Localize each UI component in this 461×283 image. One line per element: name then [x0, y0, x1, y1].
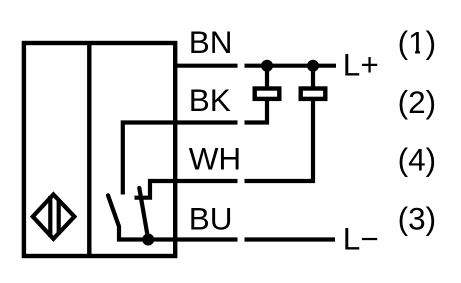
svg-text:(2): (2) — [398, 84, 437, 120]
load resistor RL2 — [301, 89, 326, 99]
svg-text:L−: L− — [343, 220, 379, 256]
svg-text:(4): (4) — [398, 141, 437, 177]
NC contact lever (closed through stop bar, WH output) — [139, 188, 148, 240]
svg-text:L+: L+ — [343, 47, 379, 83]
load 2 top lead — [311, 66, 315, 90]
junction dot L+ / load 1 — [261, 60, 273, 72]
svg-text:BN: BN — [189, 24, 233, 60]
wire BU sensor side — [148, 237, 237, 241]
wire WH external to load 2 — [245, 99, 314, 181]
wire BN/L+ external — [245, 64, 337, 68]
wire BN sensor side — [173, 64, 238, 68]
junction dot L+ / load 2 — [307, 60, 319, 72]
load resistor RL1 — [255, 89, 280, 99]
sensor body outline — [24, 43, 175, 256]
sensor housing divider — [87, 43, 91, 256]
svg-text:BU: BU — [189, 201, 233, 237]
wire BK external to load 1 — [245, 99, 268, 123]
junction dot on BU common — [142, 234, 154, 246]
wire BK internal + fixed NO contact terminal — [123, 123, 238, 195]
svg-text:(3): (3) — [398, 201, 437, 237]
wire WH internal + fixed NC contact terminal with stop bar — [135, 181, 238, 198]
load 1 top lead — [265, 66, 269, 90]
NO contact lever (open, BK output) — [108, 195, 148, 239]
svg-text:(1): (1) — [398, 24, 437, 60]
wire BU/L- external — [245, 237, 336, 241]
mask to square off digit 1 foot — [409, 50, 415, 54]
svg-text:BK: BK — [189, 82, 231, 118]
inductive sensor symbol (diamond with band) — [33, 195, 75, 239]
svg-text:WH: WH — [189, 140, 241, 176]
